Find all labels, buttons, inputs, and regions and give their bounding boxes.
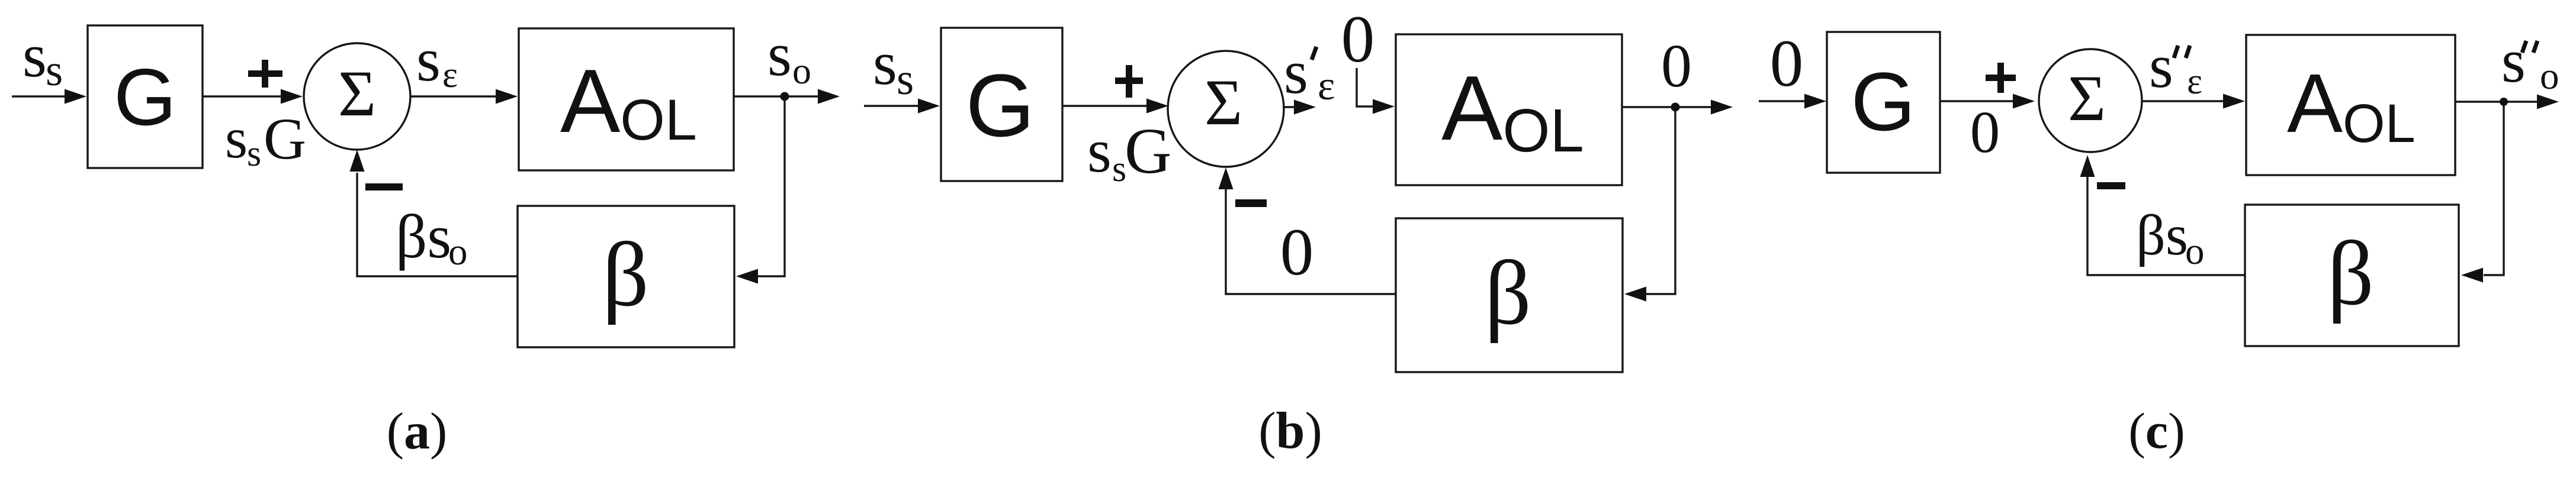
svg-text:Σ: Σ: [1205, 66, 1242, 138]
block beta panel c: [2245, 205, 2459, 346]
arrowhead: panel b into beta (left): [1624, 287, 1646, 302]
plus sign panel b: [1115, 77, 1143, 84]
svg-text:s: s: [225, 106, 248, 170]
block G panel c: [1827, 32, 1940, 173]
wire: panel b zero input elbow: [1357, 68, 1375, 106]
wire: panel c feedback bottom horizontal: [2087, 177, 2245, 275]
svg-text:(a): (a): [387, 403, 448, 460]
svg-text:s: s: [1284, 37, 1308, 106]
arrowhead: panel c into beta (left): [2461, 268, 2483, 283]
svg-text:s: s: [416, 25, 441, 94]
arrowhead: panel b into sum: [1146, 99, 1168, 114]
svg-text:o: o: [792, 50, 811, 92]
arrowhead: panel c into AOL: [2223, 94, 2245, 109]
svg-text:β: β: [2327, 222, 2374, 324]
wire: panel b feedback bottom horizontal: [1226, 189, 1396, 294]
minus sign panel c: [2097, 182, 2125, 189]
svg-text:(c): (c): [2128, 402, 2185, 459]
svg-text:o: o: [2185, 230, 2205, 273]
double prime marks panel c epsilon: [2174, 46, 2178, 58]
arrowhead: panel a into G: [65, 89, 86, 104]
arrowhead: panel c output: [2537, 95, 2559, 109]
summing junction panel a: [304, 43, 410, 150]
wire: panel c feedback right vertical: [2484, 102, 2504, 275]
svg-text:s: s: [767, 20, 792, 89]
arrowhead: panel c into sum: [2013, 94, 2035, 109]
wire: panel c input line: [1759, 100, 1806, 102]
wire: panel c sum to AOL line: [2143, 100, 2225, 102]
svg-text:Σ: Σ: [2068, 62, 2106, 134]
svg-text:s: s: [46, 46, 63, 95]
node: panel a output junction dot: [780, 92, 789, 101]
arrowhead: panel a into beta (left): [736, 269, 758, 284]
arrowhead: panel c feedback into sum (up): [2080, 155, 2095, 177]
svg-text:βs: βs: [2136, 204, 2188, 267]
svg-text:s: s: [2501, 26, 2526, 95]
arrowhead: panel a output: [818, 89, 840, 104]
arrowhead: panel b into G: [918, 99, 940, 114]
svg-text:0: 0: [1341, 2, 1375, 76]
svg-text:Σ: Σ: [338, 57, 376, 130]
block beta panel b: [1396, 218, 1623, 372]
svg-text:o: o: [2540, 55, 2559, 98]
minus sign panel a: [365, 183, 403, 190]
block AOL panel c: [2246, 35, 2455, 175]
block beta panel a: [518, 206, 734, 347]
svg-text:0: 0: [1770, 27, 1804, 101]
svg-text:0: 0: [1661, 32, 1692, 100]
svg-text:s: s: [247, 134, 261, 174]
plus sign panel a: [248, 70, 282, 77]
summing junction panel b: [1168, 51, 1284, 167]
svg-text:(b): (b): [1258, 402, 1322, 460]
svg-text:β: β: [602, 224, 649, 325]
svg-text:ε: ε: [442, 55, 458, 95]
svg-text:β: β: [1485, 242, 1531, 344]
svg-text:s: s: [1087, 116, 1112, 185]
svg-text:βs: βs: [396, 202, 451, 271]
svg-text:s: s: [2149, 31, 2173, 101]
node: panel c output junction dot: [2500, 98, 2508, 106]
svg-text:s: s: [23, 21, 47, 90]
wire: panel b G to sum line: [1062, 105, 1149, 106]
wire: panel a G to sum line: [203, 95, 284, 97]
arrowhead: panel b feedback into sum (up): [1219, 167, 1234, 189]
svg-text:0: 0: [1970, 99, 2000, 165]
summing junction panel c: [2039, 49, 2142, 152]
wire: panel a feedback right vertical: [758, 96, 785, 276]
block G panel a: [88, 25, 203, 168]
prime mark panel b: [1312, 47, 1316, 60]
plus sign panel c: [1986, 75, 2016, 81]
wire: panel a feedback bottom horizontal: [357, 173, 518, 276]
svg-text:ε: ε: [1318, 63, 1335, 109]
wire: panel c G to sum line: [1940, 100, 2015, 102]
arrowhead: panel b output: [1711, 100, 1733, 115]
svg-text:o: o: [448, 231, 468, 273]
double prime marks panel c output: [2522, 41, 2526, 53]
minus sign panel b: [1235, 199, 1267, 207]
arrowhead: panel b zero into AOL: [1373, 99, 1395, 114]
svg-text:G: G: [114, 52, 176, 142]
svg-text:G: G: [1851, 55, 1916, 148]
arrowhead: panel c into G: [1804, 94, 1826, 109]
arrowhead: panel a into AOL: [496, 89, 518, 104]
arrowhead: panel a into sum: [281, 89, 303, 104]
svg-text:s: s: [873, 28, 897, 98]
wire: panel a AOL output line: [734, 95, 820, 97]
wire: panel a sum to AOL line: [410, 95, 497, 97]
block AOL panel a: [519, 28, 734, 170]
wire: panel b input line: [864, 105, 921, 106]
wire: panel c AOL output line: [2455, 101, 2539, 102]
wire: panel a input line: [12, 95, 69, 97]
block G panel b: [941, 28, 1062, 181]
svg-text:ε: ε: [2187, 62, 2202, 102]
svg-text:G: G: [966, 56, 1035, 155]
svg-text:G: G: [264, 106, 306, 172]
svg-text:s: s: [897, 55, 914, 104]
arrowhead: panel a feedback into sum (up): [350, 150, 365, 172]
block AOL panel b: [1396, 34, 1622, 185]
svg-text:0: 0: [1280, 215, 1314, 289]
node: panel b output junction dot: [1671, 103, 1680, 112]
wire: panel b AOL output line: [1622, 106, 1713, 108]
wire: panel b feedback right vertical: [1646, 107, 1675, 294]
wire: panel b sum short output line: [1283, 106, 1297, 108]
svg-text:G: G: [1125, 115, 1171, 187]
arrowhead: panel b sum short output: [1294, 100, 1316, 115]
